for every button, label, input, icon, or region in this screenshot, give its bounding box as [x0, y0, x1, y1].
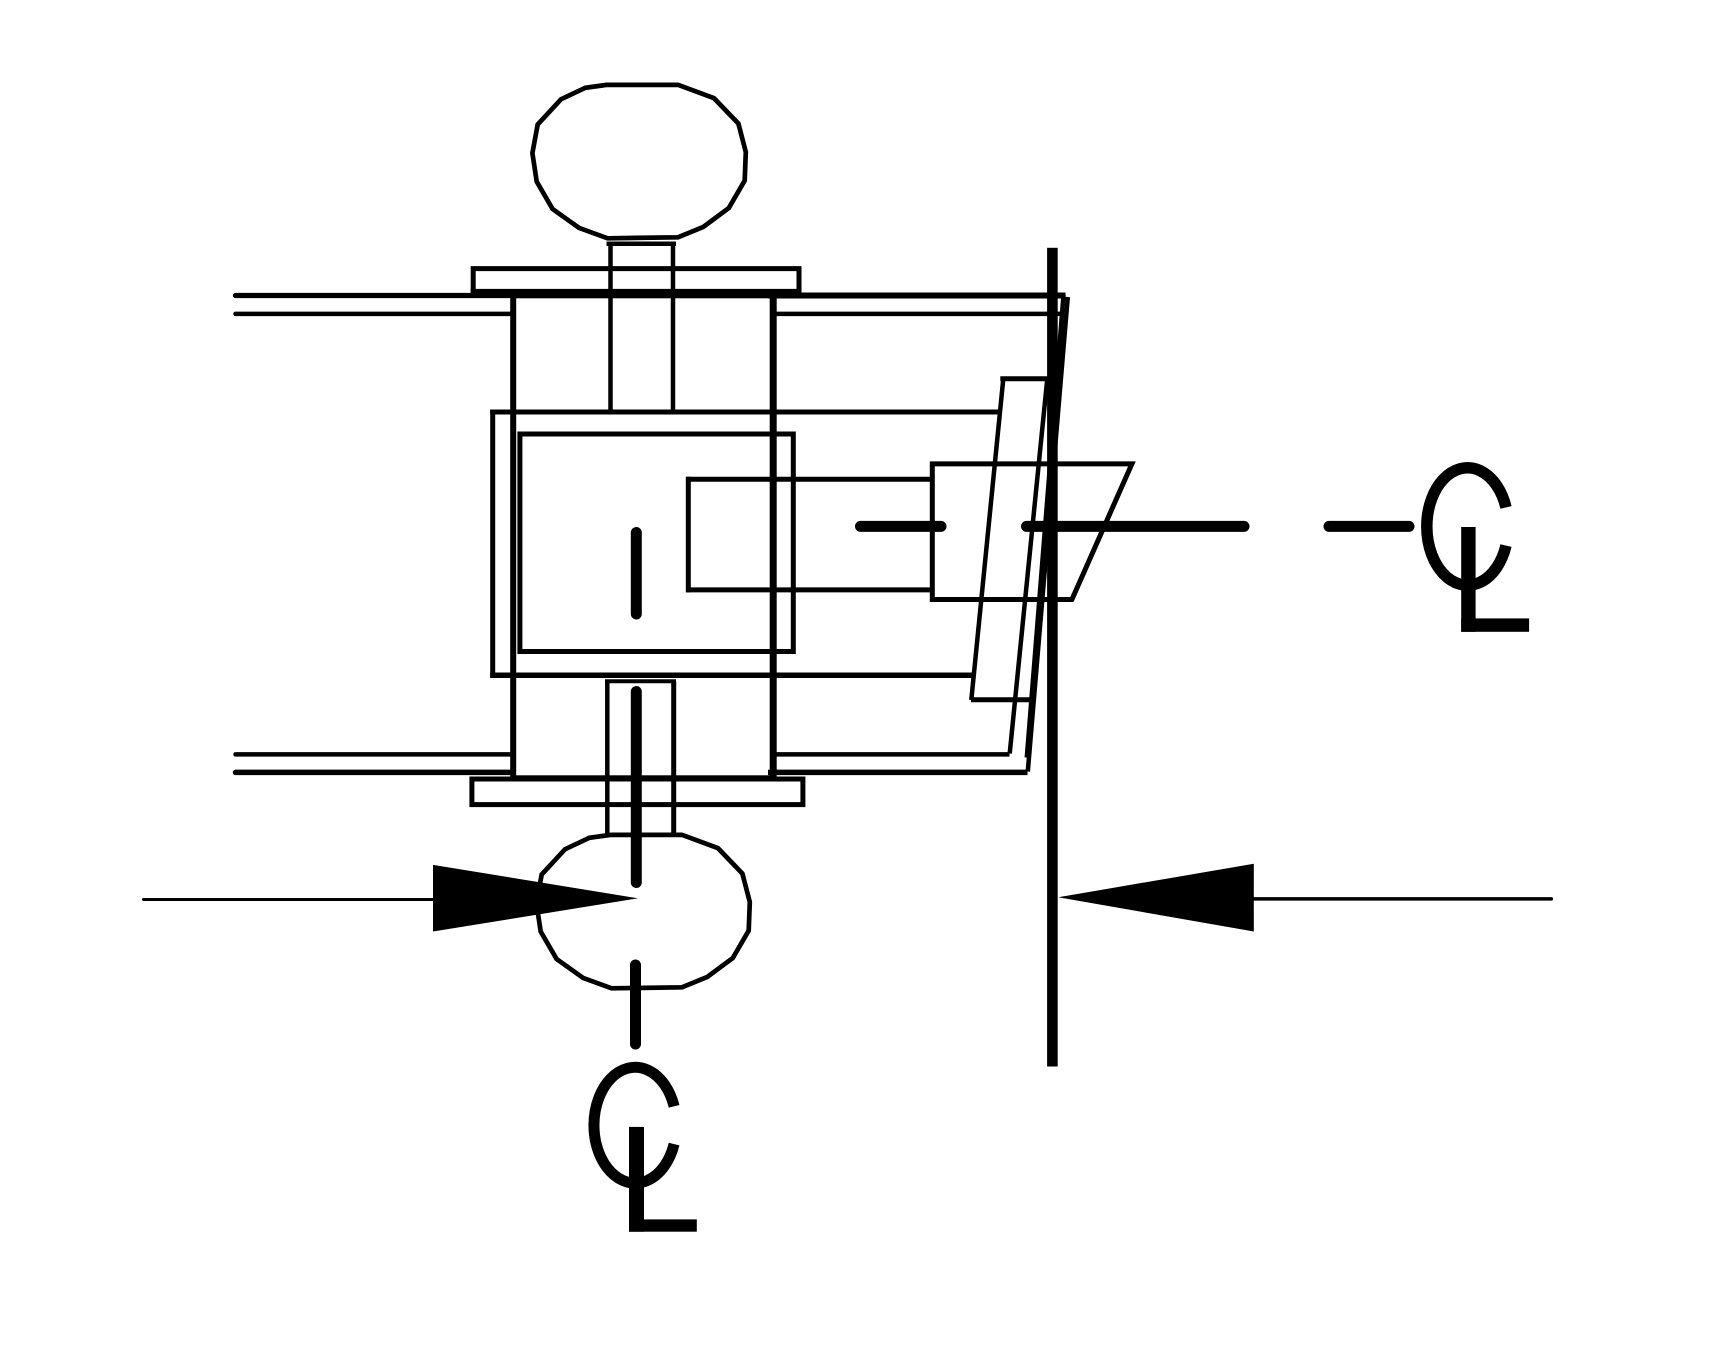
bottom stem left line: [605, 681, 610, 834]
carrier plate left edge: [490, 410, 495, 678]
left lower rail line 1: [236, 752, 514, 757]
tilted pole top edge: [1000, 376, 1047, 381]
top knob: [532, 85, 745, 239]
left upper rail line 2: [236, 312, 514, 317]
top stem shoulder edge: [607, 241, 677, 246]
top flange: [473, 269, 799, 294]
top stem right line: [671, 242, 676, 413]
vertical centerline dash in body: [631, 533, 642, 615]
horizontal centerline dash 1: [861, 521, 942, 532]
bottom flange: [472, 779, 803, 805]
socket cup tilted wall inner line: [1027, 295, 1064, 758]
top flange bottom edge: [471, 289, 802, 294]
socket cup tilted wall outer line: [1028, 297, 1068, 772]
vertical centerline dash below knob: [630, 965, 641, 1044]
socket cup top inner edge: [773, 312, 1061, 317]
socket cup bottom inner edge: [773, 752, 1010, 757]
inner block: [520, 434, 793, 652]
horizontal centerline dash 2: [1027, 521, 1245, 532]
tilted pole right edge: [1010, 379, 1048, 754]
main housing body: [513, 295, 773, 778]
vertical centerline dash in stem: [631, 692, 642, 883]
datum vertical line: [1047, 248, 1058, 1067]
arm bottom edge: [686, 587, 930, 592]
bottom CL symbol C: [594, 1067, 674, 1183]
bottom stem right line: [671, 681, 676, 834]
bottom knob: [536, 835, 749, 989]
tilted pole bottom edge: [971, 697, 1034, 702]
left dimension line: [144, 898, 434, 901]
right dimension line: [1254, 897, 1552, 901]
carrier plate bottom edge: [490, 672, 973, 678]
right dimension arrowhead: [1058, 864, 1254, 932]
socket cup bottom outer edge: [768, 770, 1028, 776]
horizontal centerline dash 3: [1329, 521, 1409, 532]
right CL symbol C: [1427, 468, 1506, 585]
bottom CL symbol L: [629, 1127, 697, 1232]
arm top edge: [686, 477, 930, 482]
left dimension arrowhead: [433, 865, 638, 932]
bottom stem top edge: [605, 679, 676, 683]
arm left edge: [686, 477, 691, 593]
wedge bracket: [932, 464, 1132, 600]
tilted pole left edge: [971, 379, 1003, 700]
housing right edge thick: [770, 292, 777, 778]
right CL symbol L: [1461, 527, 1529, 632]
left lower rail line 2: [236, 770, 514, 776]
top stem left line: [608, 242, 613, 413]
left upper rail line 1: [236, 293, 514, 298]
socket cup top outer edge: [768, 293, 1066, 299]
carrier plate top edge: [490, 410, 1000, 415]
